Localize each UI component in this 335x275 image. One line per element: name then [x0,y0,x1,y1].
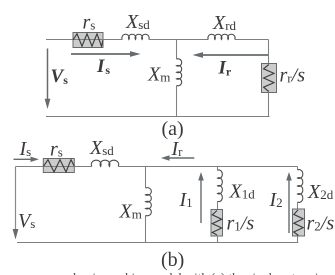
resistor r_s box (b) [43,159,74,173]
arrow I_1 (b) [198,172,204,223]
arrow I_s (a) [71,51,141,57]
wire branch1 bottom stub (b) [217,236,219,243]
svg-text:Vs: Vs [18,210,35,232]
inductor X_rd coil (a) [208,34,235,39]
inductor X_sd coil (a) [122,34,149,39]
inductor X_m coil (b) [146,188,152,216]
wire branch2 top stub (b) [297,167,299,170]
arrow I_r (a) [193,52,269,58]
wire X_m branch upper (b) [145,167,147,188]
svg-text:rs: rs [50,139,63,161]
svg-text:rs: rs [83,12,96,34]
arrow V_s (a) [45,49,51,110]
wire bottom rail (a) [46,116,270,118]
wire top rail right (a) [235,39,269,41]
svg-text:I1: I1 [179,189,193,211]
resistor r_1/s zigzag (b) [212,211,221,236]
svg-text:r1/s: r1/s [227,213,255,235]
inductor X_m coil (a) [177,59,182,86]
svg-text:Xm: Xm [119,201,142,223]
arrow I_s (b) [14,157,40,162]
resistor r_1/s box (b) [211,210,223,237]
svg-text:Xrd: Xrd [212,12,237,34]
resistor r_s zigzag (b) [44,160,75,172]
wire top rail middle (b) [119,166,298,168]
wire branch2 bottom stub (b) [297,236,299,243]
arrow I_r (b) [161,155,194,160]
wire branch1 top stub (b) [217,167,219,171]
wire top rail middle (a) [149,39,208,41]
wire right branch upper (a) [268,40,270,64]
svg-text:rr/s: rr/s [280,65,306,87]
svg-text:Is: Is [96,56,110,77]
svg-text:(a): (a) [162,118,184,140]
svg-text:Xsd: Xsd [125,11,150,33]
svg-text:I2: I2 [269,189,283,211]
resistor r_2/s box (b) [293,209,305,236]
svg-text:Ir: Ir [171,138,184,160]
svg-text:d-axis machine model with (a): d-axis machine model with (a) the single… [70,270,335,275]
arrow I_2 (b) [286,172,292,233]
wire X_m branch lower (a) [176,86,178,117]
svg-text:Is: Is [19,138,32,160]
svg-text:r2/s: r2/s [307,213,335,235]
resistor r_r/s box (a) [262,64,277,93]
resistor r_s box (a) [73,33,103,48]
svg-text:Xsd: Xsd [89,137,114,159]
wire top rail left (b) [16,166,92,168]
resistor r_r/s zigzag (a) [264,65,274,92]
wire X_m branch upper (a) [176,40,178,60]
svg-text:Xm: Xm [147,64,170,86]
wire branch1 middle (b) [217,201,219,209]
inductor X_sd coil (b) [91,160,118,166]
svg-text:X1d: X1d [229,181,256,203]
svg-text:X2d: X2d [307,181,334,203]
wire branch2 middle (b) [297,202,299,209]
wire top rail left (a) [46,39,122,41]
wire bottom rail (b) [17,242,298,244]
inductor X_2d coil (b) [298,170,303,203]
wire X_m branch lower (b) [145,216,147,243]
wire right branch lower (a) [268,93,270,118]
resistor r_2/s zigzag (b) [294,210,303,236]
resistor r_s zigzag (a) [73,34,103,46]
svg-text:(b): (b) [161,249,184,271]
wire left side / arrow V_s (b) [13,167,19,240]
svg-text:Ir: Ir [218,58,232,79]
inductor X_1d coil (b) [218,170,223,202]
svg-text:Vs: Vs [51,66,69,87]
